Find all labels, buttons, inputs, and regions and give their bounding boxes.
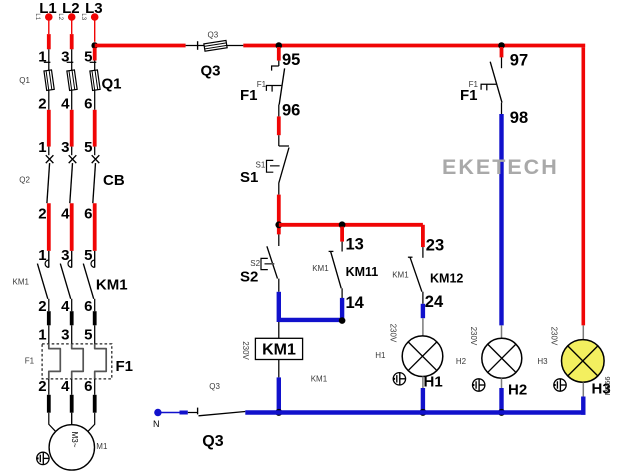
terminal L3 xyxy=(80,0,103,21)
svg-text:L1: L1 xyxy=(34,13,40,20)
start button S2 xyxy=(240,234,279,291)
ground symbol at motor xyxy=(37,452,49,464)
svg-text:3: 3 xyxy=(61,327,69,344)
svg-text:H2: H2 xyxy=(456,357,467,366)
svg-text:F1: F1 xyxy=(25,357,35,366)
svg-text:KM1: KM1 xyxy=(392,270,409,279)
svg-text:Q3: Q3 xyxy=(209,382,220,391)
wire xyxy=(71,17,73,49)
svg-text:L3: L3 xyxy=(80,13,86,20)
svg-text:S2: S2 xyxy=(240,268,258,285)
wire xyxy=(70,110,74,147)
svg-text:L2: L2 xyxy=(62,0,80,17)
svg-text:Q3: Q3 xyxy=(208,31,219,40)
svg-text:EKETECH: EKETECH xyxy=(442,155,559,179)
svg-text:24: 24 xyxy=(425,293,444,311)
overload contact F1 97-98 xyxy=(460,57,502,104)
svg-text:2: 2 xyxy=(38,96,46,113)
fuse Q1 pole 3-4 xyxy=(61,48,77,112)
wire xyxy=(582,325,584,339)
svg-text:KM1: KM1 xyxy=(262,341,296,358)
wire xyxy=(93,110,97,147)
terminal L1 xyxy=(34,0,57,21)
node 97 junction xyxy=(498,42,505,49)
svg-text:4: 4 xyxy=(61,378,70,395)
breaker CB label xyxy=(19,172,125,189)
wire xyxy=(277,195,281,235)
breaker CB pole 5-6 xyxy=(84,139,99,222)
contactor KM1 pole 1-2 xyxy=(37,247,48,315)
contactor KM1 pole 3-4 xyxy=(60,247,71,315)
svg-text:230V: 230V xyxy=(469,327,478,346)
wire xyxy=(500,47,504,57)
pin 23 xyxy=(426,237,444,255)
svg-text:KM1: KM1 xyxy=(311,375,328,384)
wire xyxy=(277,47,281,61)
aux contact KM12 xyxy=(392,247,463,304)
svg-text:H1: H1 xyxy=(424,374,443,391)
node H1 junction xyxy=(419,409,426,416)
fuse Q1 pole 5-6 xyxy=(84,48,100,112)
svg-text:4: 4 xyxy=(61,206,70,223)
pin 95 xyxy=(282,51,300,69)
overload relay F1 heater 3-4 xyxy=(61,327,83,396)
svg-text:6: 6 xyxy=(84,206,92,223)
wire xyxy=(421,304,425,336)
terminal N xyxy=(153,409,162,429)
wire L1 top bus xyxy=(95,44,586,48)
aux contact KM11 xyxy=(312,242,378,298)
node L3 junction xyxy=(91,42,98,49)
contactor KM1 pole 5-6 xyxy=(83,247,94,315)
svg-text:2: 2 xyxy=(38,298,46,315)
wire xyxy=(70,311,74,344)
pin 96 xyxy=(282,101,300,119)
wire neutral bus xyxy=(245,410,585,415)
node 95 junction xyxy=(276,42,283,49)
svg-text:95: 95 xyxy=(282,51,300,69)
wire xyxy=(48,379,50,413)
fuse Q3 control xyxy=(186,31,244,80)
svg-text:L2: L2 xyxy=(57,13,63,20)
svg-text:KM1: KM1 xyxy=(312,264,329,273)
wire xyxy=(340,298,344,322)
wire xyxy=(47,110,51,147)
wire xyxy=(277,292,281,322)
wire xyxy=(340,227,344,242)
wire xyxy=(93,48,97,61)
wire xyxy=(94,379,96,413)
motor M1 xyxy=(49,425,108,470)
svg-text:F1: F1 xyxy=(257,80,267,89)
wire xyxy=(501,103,503,339)
svg-text:KM11: KM11 xyxy=(346,265,379,279)
svg-text:S1: S1 xyxy=(240,169,258,186)
svg-text:F1: F1 xyxy=(116,358,134,375)
node control junction xyxy=(275,221,282,228)
watermark xyxy=(442,155,559,179)
overload relay F1 label xyxy=(25,357,133,376)
svg-text:23: 23 xyxy=(426,237,444,255)
svg-text:97: 97 xyxy=(510,52,528,70)
svg-text:L3: L3 xyxy=(85,0,103,17)
fuse Q1 label xyxy=(19,76,121,93)
svg-text:6: 6 xyxy=(84,96,92,113)
breaker CB pole 1-2 xyxy=(38,139,53,222)
wire control bus xyxy=(279,223,423,227)
svg-text:4: 4 xyxy=(61,96,70,113)
wire xyxy=(161,412,188,414)
svg-text:1: 1 xyxy=(38,327,46,344)
svg-text:KM1: KM1 xyxy=(96,276,128,293)
svg-text:6: 6 xyxy=(84,378,92,395)
fuse Q1 pole 1-2 xyxy=(38,48,54,112)
svg-text:2: 2 xyxy=(38,206,46,223)
svg-text:N: N xyxy=(153,419,160,429)
overload relay F1 heater 5-6 xyxy=(84,327,106,396)
wire xyxy=(278,105,280,136)
pin 97 xyxy=(510,52,528,70)
node H2 junction xyxy=(498,409,505,416)
wire xyxy=(47,311,51,344)
node 13 junction xyxy=(339,221,346,228)
svg-text:M1: M1 xyxy=(96,442,108,451)
wire xyxy=(93,203,97,251)
svg-text:5: 5 xyxy=(84,327,92,344)
svg-text:CB: CB xyxy=(103,172,125,189)
svg-text:3: 3 xyxy=(61,139,69,156)
wire xyxy=(47,203,51,251)
svg-text:F1: F1 xyxy=(460,87,478,104)
ground symbol at H2 xyxy=(473,379,485,391)
overload relay F1 box xyxy=(42,344,112,379)
svg-text:4: 4 xyxy=(61,298,70,315)
wire xyxy=(70,203,74,251)
svg-text:5: 5 xyxy=(84,139,92,156)
svg-text:Q2: Q2 xyxy=(19,176,30,185)
wire xyxy=(277,377,281,412)
svg-text:230V: 230V xyxy=(389,324,398,343)
pin 14 xyxy=(346,294,365,312)
svg-text:Q1: Q1 xyxy=(102,76,122,93)
overload relay F1 heater 1-2 xyxy=(38,327,60,396)
ground symbol at H3 xyxy=(554,379,566,391)
wire xyxy=(501,378,503,412)
svg-text:230V: 230V xyxy=(241,341,250,360)
svg-text:H1: H1 xyxy=(375,351,386,360)
terminal L2 xyxy=(57,0,80,21)
svg-text:13: 13 xyxy=(346,236,364,254)
svg-text:H2: H2 xyxy=(508,381,527,398)
svg-text:230V: 230V xyxy=(550,327,559,346)
svg-text:96: 96 xyxy=(282,101,300,119)
svg-text:98: 98 xyxy=(510,109,528,127)
wire xyxy=(93,311,97,344)
wire xyxy=(71,379,73,413)
contactor KM1 label xyxy=(13,276,128,293)
svg-text:2: 2 xyxy=(38,378,46,395)
pin 24 xyxy=(425,293,444,311)
svg-text:Q3: Q3 xyxy=(202,433,223,450)
wire right edge down to H3 xyxy=(581,47,585,325)
contactor coil KM1 xyxy=(241,322,328,384)
svg-text:KM1: KM1 xyxy=(13,277,30,286)
wire xyxy=(94,17,96,42)
svg-text:H3: H3 xyxy=(537,357,548,366)
wire hold link xyxy=(279,318,342,322)
pin 98 xyxy=(510,109,528,127)
lamp H2 xyxy=(456,327,527,399)
fuse-switch Q3 neutral xyxy=(188,382,246,450)
wire xyxy=(48,17,50,49)
lamp H3 xyxy=(537,327,611,398)
svg-text:1: 1 xyxy=(38,139,46,156)
wire xyxy=(422,377,424,413)
svg-text:M366: M366 xyxy=(603,376,612,395)
wire xyxy=(421,225,425,247)
node coil return junction xyxy=(275,409,282,416)
svg-text:KM12: KM12 xyxy=(430,272,463,286)
overload contact F1 95-96 xyxy=(240,61,285,105)
svg-text:L1: L1 xyxy=(39,0,57,17)
stop button S1 xyxy=(240,135,289,194)
lamp H1 xyxy=(375,324,443,391)
node 14 junction xyxy=(339,317,346,324)
svg-text:S2: S2 xyxy=(250,259,260,268)
pin 13 xyxy=(346,236,364,254)
svg-text:14: 14 xyxy=(346,294,365,312)
wire xyxy=(582,382,584,414)
breaker CB pole 3-4 xyxy=(61,139,76,222)
wire xyxy=(71,413,73,425)
svg-text:6: 6 xyxy=(84,298,92,315)
svg-text:Q3: Q3 xyxy=(201,63,221,80)
wire xyxy=(88,413,95,432)
ground symbol at H1 xyxy=(393,373,405,385)
svg-text:F1: F1 xyxy=(240,87,258,104)
svg-text:Q1: Q1 xyxy=(19,76,30,85)
wire xyxy=(49,413,56,432)
svg-text:M3~: M3~ xyxy=(70,432,79,448)
